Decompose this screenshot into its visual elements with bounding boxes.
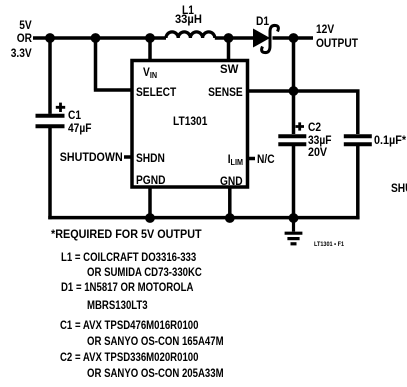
label C1 — [68, 109, 81, 121]
wire: C2 to bottom rail — [292, 146, 296, 218]
wire: inductor to diode anode — [215, 36, 255, 40]
wire: C1 to bottom rail — [48, 128, 52, 219]
wire: SHDN stub from SHUTDOWN label — [124, 155, 132, 159]
wire: SENSE line from pin to right branch — [248, 89, 360, 134]
label C2 — [308, 121, 321, 133]
pin SELECT — [136, 86, 176, 98]
wire: VIN stub — [148, 38, 152, 61]
node: PGND junction on bottom rail — [145, 213, 155, 223]
pin SW — [220, 63, 238, 75]
parts list C1 line 2 — [87, 335, 224, 347]
value 33µH — [175, 13, 201, 25]
net SHU (clipped SHUTDOWN) — [391, 182, 407, 194]
node: SENSE junction — [289, 86, 299, 96]
note LT1301 F1 — [314, 242, 344, 249]
node: junction to SELECT — [91, 33, 101, 43]
wire: bottom ground rail — [48, 216, 359, 220]
note *REQUIRED FOR 5V OUTPUT — [51, 228, 202, 240]
wire: ILIM stub to N/C — [248, 157, 256, 161]
wire: PGND stub to bottom rail — [148, 187, 152, 218]
pin VIN — [143, 66, 157, 80]
label D1 — [256, 15, 269, 27]
pin SENSE — [208, 86, 243, 98]
node N/C label — [257, 153, 275, 165]
parts list C2 line 1 — [60, 351, 198, 363]
capacitor C2 plates — [278, 136, 306, 144]
node: input junction to C1 — [45, 33, 55, 43]
value 33µF — [308, 134, 331, 146]
parts list D1 line 1 — [61, 281, 193, 293]
wire: output branch down through SENSE node to C2 — [292, 38, 296, 134]
value 47µF — [68, 122, 91, 134]
parts list L1 line 2 — [87, 266, 202, 278]
capacitor C3 0.1uF plates — [344, 136, 372, 144]
inductor L1 coil — [166, 32, 215, 38]
node: output junction — [289, 33, 299, 43]
op-amp U1: LT1301 IC box — [132, 61, 248, 188]
wire: top rail from input to inductor — [33, 36, 166, 40]
node: GND junction on bottom rail — [225, 213, 235, 223]
node 5V OR 3.3V input label — [19, 19, 31, 31]
wire: 0.1uF cap to bottom rail — [356, 146, 360, 219]
net SHUTDOWN label — [60, 151, 123, 163]
node: inductor right / SW junction — [224, 33, 234, 43]
label + polarity of C2 — [296, 122, 305, 130]
ground — [285, 218, 303, 244]
pin SHDN — [136, 152, 165, 164]
wire: C1 branch down from rail — [48, 38, 52, 114]
wire: GND stub to bottom rail — [228, 187, 232, 218]
node 12V OUTPUT label — [316, 23, 334, 35]
diode D1 curved schottky cathode bar — [262, 25, 279, 52]
parts list L1 line 1 — [61, 251, 196, 263]
node: ground junction on bottom rail — [289, 213, 299, 223]
parts list C2 line 2 — [87, 367, 224, 379]
capacitor C1 plates — [36, 116, 65, 127]
pin ILIM — [228, 153, 243, 167]
wire: SELECT branch — [94, 38, 132, 90]
value 20V — [308, 146, 327, 158]
pin GND — [220, 175, 243, 187]
parts list D1 line 2 — [87, 299, 148, 311]
label + polarity of C1 — [56, 103, 65, 112]
pin PGND — [136, 174, 165, 186]
label L1 — [178, 4, 198, 16]
node: junction to VIN / inductor left — [145, 33, 155, 43]
op-amp U1 label LT1301 — [173, 115, 207, 127]
diode D1 triangle — [254, 30, 268, 46]
wire: diode cathode to 12V output — [273, 36, 314, 40]
wire: SW stub — [227, 38, 231, 61]
value 0.1µF* — [374, 134, 406, 146]
parts list C1 line 1 — [60, 319, 198, 331]
